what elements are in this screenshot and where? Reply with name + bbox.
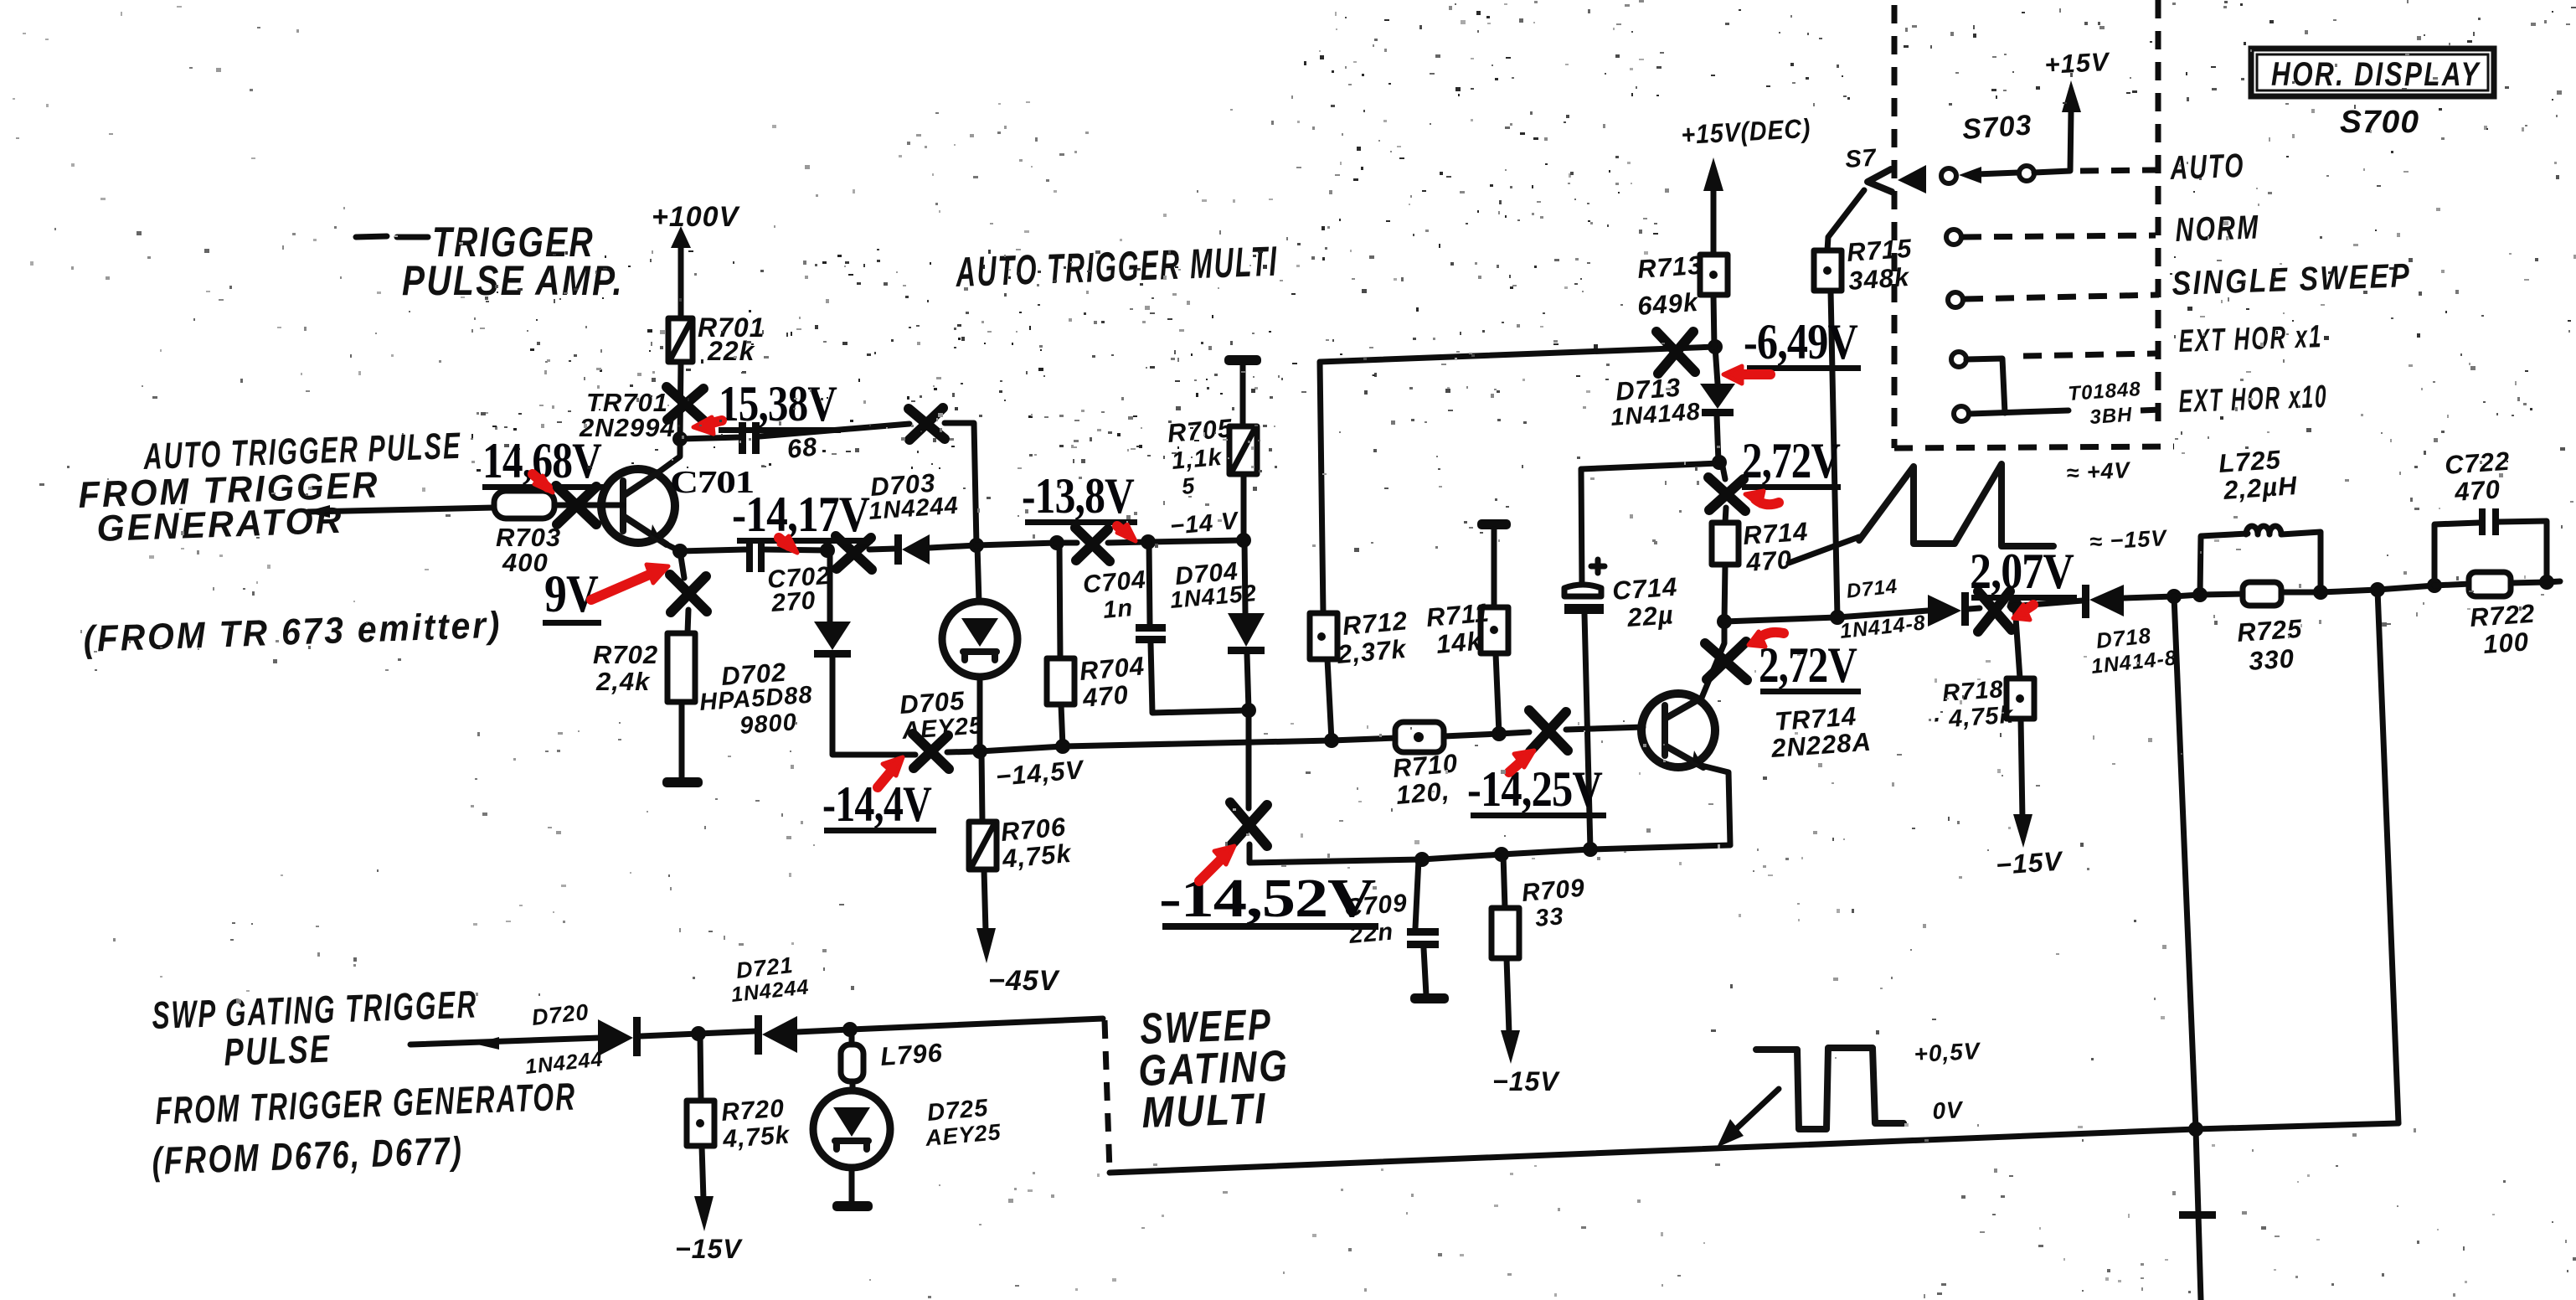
wire R701 to collector node: [680, 362, 681, 437]
resistor R706: [969, 822, 997, 869]
node down branch junction: [2370, 582, 2385, 597]
net label -14V: [1169, 508, 1241, 540]
node L725 right junction: [2313, 585, 2328, 600]
node D702 branch junction: [820, 543, 835, 558]
wire X to TR714 base: [1566, 727, 1643, 730]
resistor R704: [1047, 658, 1074, 704]
section label AUTO TRIGGER PULSE: [142, 426, 462, 477]
resistor R710: [1395, 722, 1444, 752]
label T01848 3BH: [2068, 378, 2142, 429]
svg-text:R702: R702: [593, 640, 658, 669]
wire R703 to base: [554, 503, 623, 508]
value label R706 4,75k: [1000, 812, 1074, 874]
test point X -14,52V: [1230, 802, 1267, 846]
box HOR DISPLAY: [2251, 49, 2494, 96]
svg-text:2,37k: 2,37k: [1336, 634, 1409, 669]
svg-text:EXT HOR x10: EXT HOR x10: [2178, 379, 2328, 420]
node C704 lower junction: [1241, 703, 1256, 718]
transistor TR701: [601, 469, 675, 544]
wire bottom gating run: [1110, 1123, 2398, 1173]
label D718 1N4148: [2090, 622, 2178, 678]
resistor R701: [668, 318, 693, 362]
node long vertical junction: [2166, 589, 2182, 604]
terminal bar R705 top: [1224, 355, 1261, 365]
node R715 output junction: [1830, 610, 1845, 625]
label D714 1N4148: [1839, 575, 1927, 643]
svg-text:14k: 14k: [1435, 626, 1484, 659]
wire node to R705 node: [1148, 540, 1243, 542]
wire R711 to base node: [1496, 653, 1499, 734]
svg-text:S703: S703: [1961, 109, 2033, 146]
test point X base 14,68V: [556, 486, 596, 524]
node C714 junction: [1583, 842, 1598, 857]
wire C701 to corner: [760, 424, 909, 436]
svg-text:C704: C704: [1082, 565, 1147, 598]
svg-text:9V: 9V: [544, 564, 599, 623]
resistor R711: [1481, 607, 1508, 653]
value label R703 400: [496, 523, 561, 577]
value label R713 649k: [1636, 250, 1703, 321]
svg-text:470: 470: [1744, 544, 1793, 577]
waveform sawtooth: [1859, 464, 2053, 546]
wire C714 top run: [1581, 463, 1719, 469]
node voltage 9V: [543, 564, 601, 626]
wire node to D704: [1244, 540, 1245, 613]
svg-text:33: 33: [1534, 903, 1565, 932]
resistor R709: [1492, 854, 1519, 1034]
wire D714 to X: [1969, 608, 1980, 609]
capacitor C709: [1407, 859, 1439, 995]
wire node to R704: [1059, 543, 1060, 658]
node voltage -6,49V: [1744, 314, 1861, 371]
value label R715 348k: [1846, 234, 1913, 296]
section title AUTO TRIGGER MULTI: [954, 238, 1279, 296]
label approx -15V: [2089, 525, 2168, 555]
switch contact NORM: [1946, 230, 1961, 245]
test point X 2,07V: [1978, 591, 2012, 632]
wire D705 to lower node: [977, 677, 983, 751]
svg-text:2,4k: 2,4k: [595, 667, 651, 696]
label D713 1N4148: [1610, 373, 1702, 431]
section label FROM D676 D677: [152, 1128, 465, 1183]
value label C702 270: [766, 562, 832, 617]
node R709 junction: [1494, 847, 1509, 862]
input wire AUTO TRIGGER PULSE: [305, 505, 494, 518]
wire -14V run: [976, 543, 1077, 545]
svg-text:-14,52V: -14,52V: [1159, 868, 1375, 929]
test point X -13,8V: [1075, 528, 1110, 561]
test point X emitter 9V: [670, 575, 707, 612]
red arrow -14,4V: [878, 757, 903, 787]
svg-text:470: 470: [2453, 474, 2501, 507]
label D704 1N4152: [1169, 557, 1258, 612]
svg-text:R709: R709: [1521, 874, 1586, 906]
waveform sawtooth lead: [1789, 537, 1859, 563]
wire base run to R710: [1332, 738, 1397, 740]
wire R714 to collector node: [1724, 565, 1725, 622]
wire node to R725: [2200, 594, 2244, 595]
svg-text:HOR. DISPLAY: HOR. DISPLAY: [2271, 56, 2481, 93]
test point X -14,17V: [836, 536, 872, 570]
capacitor C722 parallel branch: [2434, 508, 2547, 586]
section title TRIGGER PULSE AMP: [356, 219, 624, 304]
svg-text:S700: S700: [2340, 105, 2419, 140]
wire D702 down and right: [832, 658, 915, 755]
wire dashed EXT HOR x10 row: [2141, 410, 2162, 410]
wire EXT HOR x1 link: [1966, 359, 2005, 413]
red arrow -6,49V: [1723, 366, 1770, 384]
node C704 junction: [1141, 534, 1156, 549]
value label R705 1,1k 5: [1167, 413, 1234, 499]
net label EXT HOR x10: [2178, 379, 2328, 420]
capacitor C701: [739, 422, 760, 454]
wire EXT HOR x10 link: [1970, 410, 2069, 414]
red arrow 2,72V upper: [1745, 491, 1779, 506]
node emitter junction: [672, 544, 688, 559]
wire emitter lead: [1702, 766, 1730, 845]
diode D713: [1700, 347, 1735, 416]
label TR701 2N2994: [579, 388, 676, 442]
diode D714: [1928, 592, 1969, 627]
wire dashed multi box edge: [1105, 1020, 1110, 1171]
value label C709 22n: [1343, 889, 1409, 949]
wire collector lead to X: [1702, 623, 1724, 698]
svg-text:100: 100: [2482, 627, 2530, 659]
node voltage 14,68V: [482, 433, 605, 490]
wire D718 to node: [2124, 596, 2174, 598]
wire R704 to lower node: [1061, 704, 1063, 746]
wire R720 branch: [700, 1034, 701, 1101]
test point X -14,25V: [1529, 710, 1568, 751]
node C722 right junction: [2539, 575, 2554, 590]
value label R718 4,75k: [1931, 676, 2015, 734]
node voltage 2,72V lower: [1759, 637, 1861, 694]
red arrow -14,25V: [1509, 751, 1534, 772]
wire R710 to R711 node: [1444, 734, 1499, 736]
node D705 junction lower: [972, 744, 987, 759]
resistor R718: [2007, 678, 2034, 719]
wire dashed EXT HOR x1 row: [2023, 353, 2156, 356]
value label R714 470: [1742, 517, 1809, 577]
terminal tick on long vertical: [2179, 1211, 2216, 1219]
resistor R720: [687, 1101, 714, 1146]
wire base node to X: [1499, 732, 1529, 734]
test point X 2,72V lower: [1705, 642, 1747, 680]
wire X to D718: [2010, 601, 2083, 606]
power -15V arrow R720: [675, 1146, 743, 1264]
value label C722 470: [2444, 446, 2511, 507]
svg-text:−15V: −15V: [675, 1234, 743, 1264]
svg-text:270: 270: [770, 586, 817, 617]
test point X -6,49V: [1656, 332, 1695, 374]
node R720 junction: [691, 1026, 706, 1041]
node R711 base junction: [1492, 726, 1507, 741]
svg-text:649k: 649k: [1636, 287, 1700, 321]
svg-text:2,72V: 2,72V: [1759, 637, 1857, 693]
wire top node to D705: [977, 545, 979, 602]
svg-text:0V: 0V: [1932, 1096, 1965, 1124]
resistor R714: [1712, 523, 1739, 565]
value label R709 33: [1521, 874, 1586, 931]
diode D720: [598, 1017, 641, 1056]
switch box dashed border left: [1892, 5, 1898, 448]
svg-text:+15V: +15V: [2044, 47, 2111, 80]
wire D703 to node: [930, 545, 976, 548]
label D720 1N4244: [524, 999, 605, 1079]
wire X to C704 node: [1108, 542, 1148, 543]
wire node to R722: [2434, 584, 2470, 586]
svg-text:≈ −15V: ≈ −15V: [2089, 525, 2168, 555]
svg-text:4,75k: 4,75k: [721, 1121, 791, 1153]
svg-text:1n: 1n: [1102, 595, 1134, 624]
svg-text:PULSE AMP.: PULSE AMP.: [402, 257, 624, 304]
section title SWEEP GATING MULTI: [1137, 1001, 1290, 1137]
wire right vertical down branch: [2378, 590, 2398, 1123]
diode D704: [1228, 613, 1265, 654]
value label C714 22u: [1611, 572, 1678, 632]
node top branch junction: [969, 538, 984, 553]
red arrow 2,72V lower: [1749, 632, 1784, 647]
label 0V: [1932, 1096, 1965, 1124]
svg-text:−15V: −15V: [1995, 845, 2065, 880]
svg-text:348k: 348k: [1847, 262, 1911, 296]
resistor R703: [494, 491, 554, 518]
svg-text:EXT HOR x1: EXT HOR x1: [2178, 319, 2323, 359]
label D725 AEY25: [924, 1095, 1002, 1151]
svg-text:AUTO: AUTO: [2169, 147, 2245, 187]
node R704 lower junction: [1055, 739, 1070, 754]
wire node to X upper: [1722, 462, 1725, 479]
wire top multi run: [1320, 347, 1715, 362]
node voltage -13,8V: [1022, 468, 1137, 525]
svg-text:470: 470: [1081, 679, 1131, 713]
node L796 junction: [842, 1022, 858, 1037]
section label FROM TR 673 emitter: [83, 605, 502, 660]
wire output end stub: [2547, 581, 2560, 582]
svg-text:−15V: −15V: [1492, 1066, 1560, 1096]
wire feedback run: [1422, 845, 1730, 859]
wire collector node to R715 node: [1724, 617, 1837, 622]
value label R702 2,4k: [593, 640, 658, 696]
ground terminal bar C709: [1410, 993, 1449, 1003]
resistor R715: [1814, 250, 1842, 291]
label D703 1N4244: [868, 468, 960, 525]
resistor R705: [1229, 426, 1257, 474]
section label FROM TRIGGER GENERATOR lower: [155, 1074, 578, 1132]
diode D721: [755, 1015, 797, 1055]
node R713 junction: [1708, 339, 1723, 354]
node voltage 2,72V upper: [1742, 433, 1841, 490]
wire AUTO feed arrow: [1959, 167, 2018, 183]
red arrow 15,38V: [693, 417, 722, 434]
wire node to D721: [698, 1031, 756, 1034]
wire D713 vertical: [1717, 415, 1718, 462]
svg-text:GENERATOR: GENERATOR: [96, 500, 345, 549]
svg-text:PULSE: PULSE: [224, 1027, 332, 1074]
node collector junction: [1717, 614, 1732, 629]
power +15V(DEC) arrow: [1680, 113, 1811, 255]
label S7: [1844, 144, 1878, 173]
red arrow 14,68V: [533, 474, 553, 493]
diode D705 circled: [942, 601, 1018, 677]
waveform square lead arrow: [1717, 1089, 1779, 1148]
node voltage 2,07V: [1970, 544, 2077, 601]
ground terminal bar D725: [832, 1168, 873, 1211]
label approx +4V: [2066, 457, 2132, 486]
power +100V: [652, 201, 741, 318]
svg-text:120,: 120,: [1395, 776, 1451, 809]
wire node to L725 node: [2174, 595, 2200, 596]
node collector junction: [672, 431, 688, 446]
svg-text:· 4,75k: · 4,75k: [1931, 701, 2015, 734]
label S700: [2340, 105, 2419, 140]
red arrow 2,07V: [2013, 605, 2033, 620]
svg-text:-14,25V: -14,25V: [1467, 761, 1603, 817]
node R705 junction: [1236, 533, 1251, 548]
svg-text:22µ: 22µ: [1625, 600, 1675, 632]
wire R712 branch corner: [1320, 362, 1323, 613]
wire to down branch node: [2321, 590, 2378, 592]
value label R704 470: [1079, 651, 1146, 713]
wire R722 to right node: [2511, 582, 2547, 583]
wire C701 coupling top: [680, 437, 740, 439]
node R712 base junction: [1324, 733, 1339, 748]
node voltage -14,25V: [1467, 761, 1606, 818]
waveform square: [1756, 1048, 1904, 1129]
svg-text:R713: R713: [1636, 250, 1703, 284]
diode D718: [2082, 585, 2124, 618]
wire R718 branch: [2015, 606, 2020, 678]
svg-text:3BH: 3BH: [2089, 403, 2134, 428]
svg-text:15,38V: 15,38V: [719, 376, 837, 431]
wire bar to R705: [1240, 365, 1246, 426]
switch contact EXT HOR x1: [1951, 352, 1966, 367]
wire R702 to terminal: [679, 702, 685, 779]
red arrow 9V: [591, 565, 668, 600]
value label C704 1n: [1082, 565, 1147, 623]
inductor L796: [841, 1029, 863, 1081]
wire dashed SINGLE SWEEP row: [1965, 295, 2159, 299]
wire dashed NORM row: [1963, 235, 2156, 237]
value label R711 14k: [1425, 597, 1492, 658]
resistor R725: [2243, 582, 2281, 606]
label C701: [670, 465, 754, 500]
red arrow -13,8V: [1117, 524, 1136, 541]
wire bar to R711: [1492, 529, 1497, 607]
wire X to feedback run corner: [1249, 844, 1422, 863]
switch selector arrow: [1898, 165, 1926, 193]
net label SINGLE SWEEP: [2172, 257, 2412, 302]
switch contact EXT HOR x10: [1954, 406, 1969, 421]
svg-text:+0,5V: +0,5V: [1914, 1038, 1982, 1067]
svg-text:MULTI: MULTI: [1141, 1085, 1268, 1137]
label S703: [1961, 109, 2033, 146]
value label R725 330: [2236, 614, 2303, 676]
svg-text:NORM: NORM: [2175, 209, 2260, 248]
svg-text:+100V: +100V: [652, 201, 741, 233]
svg-text:4,75k: 4,75k: [1001, 838, 1074, 874]
wire D720 to R720 node: [641, 1034, 698, 1036]
label D721 1N4244: [730, 952, 811, 1007]
net label AUTO: [2169, 147, 2245, 187]
node voltage 15,38V: [719, 376, 841, 433]
wire R715 vertical: [1831, 291, 1837, 617]
value label R710 120: [1392, 748, 1460, 810]
switch box dashed border right: [2156, 0, 2161, 431]
value label L725 2,2uH: [2218, 445, 2299, 505]
section label FROM TRIGGER GENERATOR upper: [78, 464, 380, 549]
wire gating to multi box: [850, 1019, 1103, 1029]
resistor R712: [1310, 613, 1337, 659]
wire X to R714: [1725, 508, 1726, 523]
wire collector lead: [658, 439, 680, 472]
label +0,5V: [1914, 1038, 1982, 1067]
wire node to R706: [981, 751, 982, 822]
svg-text:≈ +4V: ≈ +4V: [2066, 457, 2132, 486]
wire node down to X: [1246, 710, 1252, 808]
test point X top branch: [909, 408, 945, 440]
red arrow -14,52V: [1199, 846, 1234, 881]
value label R712 2,37k: [1336, 606, 1409, 669]
power -45V arrow: [976, 869, 1061, 997]
node voltage -14,4V: [822, 776, 936, 833]
svg-text:5: 5: [1181, 473, 1197, 499]
svg-text:R705: R705: [1167, 413, 1234, 448]
switch contact AUTO: [1941, 168, 1956, 183]
label L796: [879, 1038, 944, 1071]
value label R701 22k: [698, 312, 765, 366]
value label 68: [786, 431, 819, 464]
switch contact AUTO feed: [2019, 166, 2034, 181]
power -15V arrow R709: [1492, 1030, 1560, 1096]
node C709 junction: [1414, 852, 1430, 867]
wire emitter to R702: [680, 551, 688, 633]
label D705 AEY25: [899, 686, 984, 745]
capacitor C702: [746, 541, 765, 572]
svg-text:S7: S7: [1844, 144, 1878, 173]
section label SWP GATING TRIGGER PULSE: [152, 982, 479, 1074]
wire R705 to node: [1241, 474, 1247, 540]
transistor TR714: [1641, 694, 1715, 767]
wire R715 to switch arm S7: [1827, 190, 1864, 250]
wire emitter node to C702: [680, 549, 747, 551]
power -15V arrow R718: [1995, 719, 2065, 880]
wire R725 to right node: [2281, 590, 2321, 596]
resistor R702: [667, 633, 695, 702]
capacitor C714 electrolytic: [1564, 469, 1605, 849]
svg-text:AEY25: AEY25: [900, 712, 984, 745]
switch box dashed border bottom: [1894, 446, 2174, 448]
wire X to D705 node: [947, 751, 980, 752]
resistor R713: [1700, 255, 1728, 347]
wire D721 to L796 node: [797, 1029, 850, 1032]
label D702 HPA5D88 9800: [698, 658, 813, 740]
wire emitter lead: [667, 544, 680, 551]
wire lower run to R704 node: [980, 746, 1063, 751]
node bottom crossing junction: [2188, 1122, 2203, 1137]
svg-text:-6,49V: -6,49V: [1744, 314, 1858, 369]
wire +15V to contact: [2034, 112, 2071, 173]
svg-text:−45V: −45V: [988, 965, 1061, 997]
wire long vertical to bottom: [2174, 596, 2201, 1300]
inductor L725 parallel branch: [2200, 526, 2321, 595]
red arrow -14,17V: [779, 536, 797, 553]
node R718 junction: [2007, 598, 2022, 613]
capacitor C704: [1136, 624, 1166, 643]
wire top branch corner down: [945, 423, 976, 545]
wire swp input: [410, 1037, 600, 1050]
svg-text:2,2µH: 2,2µH: [2222, 471, 2299, 505]
